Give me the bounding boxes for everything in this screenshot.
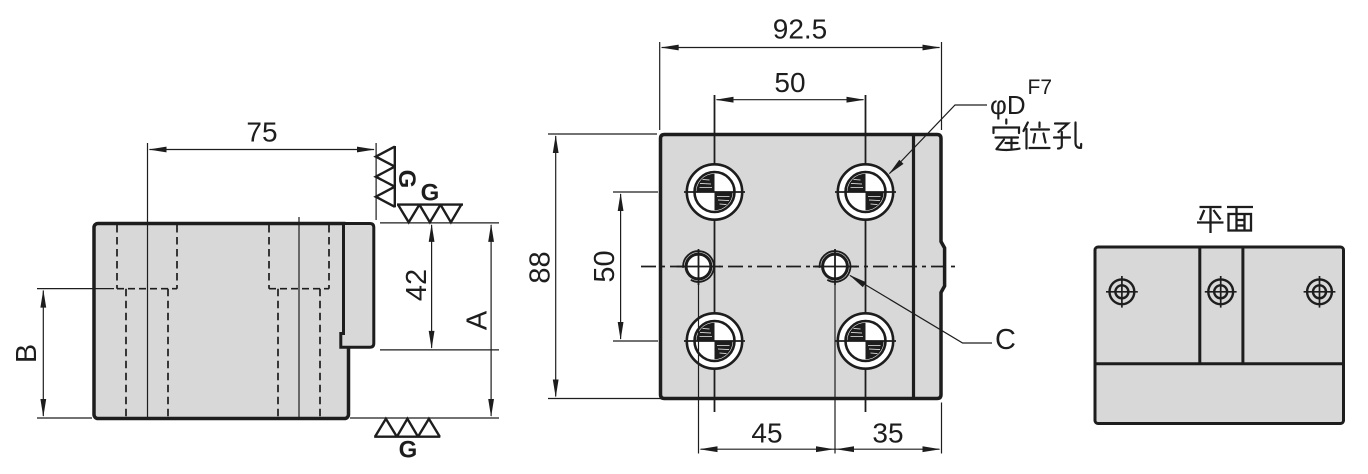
svg-text:88: 88: [525, 251, 557, 283]
dimension 45 and 35: [699, 285, 942, 454]
surface finish triangles bottom: [374, 419, 440, 437]
small hole C right: [813, 249, 857, 285]
svg-text:35: 35: [872, 418, 903, 449]
big hole top-right: [835, 164, 896, 219]
plan view plate: [661, 135, 945, 399]
vertical center lines through big holes: [715, 95, 866, 412]
dimension 50 top: [717, 99, 864, 101]
hidden through holes: [126, 289, 320, 417]
big hole top-left: [684, 164, 745, 219]
leader C: [850, 276, 992, 344]
dimension 50 left: [613, 192, 658, 341]
leader phiD: [890, 105, 988, 174]
flat view vertical dividers: [1198, 248, 1201, 364]
svg-text:45: 45: [751, 418, 782, 449]
dimension A: [350, 225, 499, 418]
svg-text:42: 42: [401, 269, 433, 301]
hole center lines side view: [148, 152, 300, 418]
svg-text:G: G: [421, 180, 440, 207]
small hole C left: [677, 249, 721, 285]
plan view step line: [912, 136, 915, 397]
dimension B: [37, 289, 114, 418]
dimension 75: [148, 143, 377, 220]
svg-text:F7: F7: [1028, 76, 1053, 99]
big hole bottom-right: [835, 313, 896, 368]
svg-text:G: G: [393, 170, 420, 189]
dimension 42: [380, 223, 499, 350]
screw symbol left: [1106, 276, 1138, 308]
big hole bottom-left: [684, 313, 745, 368]
svg-text:50: 50: [589, 250, 621, 282]
screw symbol middle: [1205, 276, 1237, 308]
svg-text:92.5: 92.5: [773, 14, 828, 45]
dimension 92.5: [660, 42, 942, 130]
svg-text:C: C: [995, 324, 1016, 356]
surface finish triangles top: [397, 205, 463, 223]
side view right tab: [341, 224, 374, 348]
flat view horizontal divider: [1096, 362, 1343, 365]
side view body: [94, 224, 349, 419]
horizontal centerline: [641, 266, 957, 268]
svg-text:φD: φD: [990, 90, 1026, 120]
hidden counterbore hole left: side walls: [117, 225, 329, 289]
svg-text:G: G: [399, 437, 418, 464]
label 定位孔: [994, 120, 1082, 150]
screw symbol right: [1304, 276, 1336, 308]
hidden counterbore bottoms: [117, 288, 329, 290]
surface finish triangles right side stack: [376, 146, 395, 207]
dimension 88: [548, 134, 664, 399]
svg-text:A: A: [462, 310, 494, 330]
svg-text:B: B: [11, 344, 43, 363]
svg-text:75: 75: [246, 117, 277, 148]
flat view body: [1095, 247, 1344, 424]
svg-text:50: 50: [774, 67, 805, 98]
flat view label 平面: [1197, 207, 1253, 233]
